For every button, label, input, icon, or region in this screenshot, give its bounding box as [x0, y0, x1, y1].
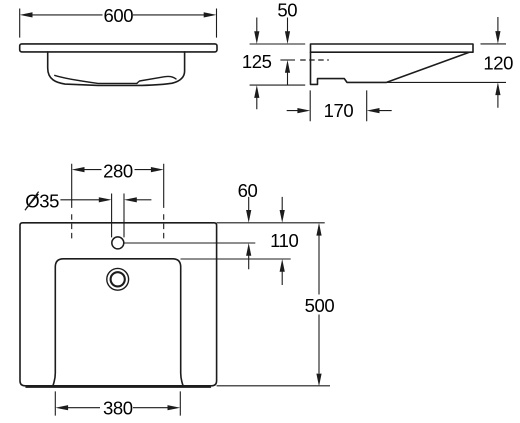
- dim 125 arrow shafts: [256, 18, 258, 110]
- dim 170 arrows: [297, 108, 310, 113]
- svg-text:500: 500: [305, 295, 335, 316]
- dim 500 arrows: [316, 223, 321, 236]
- dim 170 extension lines: [310, 90, 367, 121]
- svg-text:280: 280: [103, 161, 133, 182]
- dim 280 line: [83, 169, 153, 171]
- bowl top edge reference line: [181, 258, 291, 260]
- svg-text:Ø35: Ø35: [25, 191, 59, 212]
- svg-text:110: 110: [270, 230, 298, 251]
- front view bowl inner bottom edge right: [137, 76, 176, 83]
- dim 110 arrows: [280, 210, 285, 223]
- dim 600 arrows: [20, 12, 33, 17]
- dim 50 arrow shafts: [287, 18, 289, 86]
- dim d35 arrows: [99, 197, 112, 202]
- svg-text:120: 120: [483, 53, 513, 74]
- dim 600 extension lines: [20, 9, 217, 38]
- dim 170 arrow shafts: [287, 110, 392, 112]
- dim 110 arrow shafts: [281, 197, 283, 285]
- dim d35 tangent ticks: [112, 194, 124, 238]
- dim 50/125 bottom reference line: [250, 84, 306, 86]
- d35 slash extension: [25, 192, 39, 211]
- plan bottom edge extension line: [217, 385, 330, 387]
- dim d35 leader line: [60, 199, 100, 201]
- dim 50/125 top reference line: [250, 43, 306, 45]
- dim 380 extension lines: [55, 391, 180, 415]
- dim 125 arrows: [254, 31, 259, 44]
- drain outer circle: [107, 268, 129, 290]
- tap hole reference line: [124, 242, 256, 244]
- dim 280 extension lines solid: [72, 164, 164, 208]
- plan outer outline: [20, 223, 217, 386]
- dim 380 arrows: [55, 405, 68, 410]
- dim 60 arrows: [246, 210, 251, 223]
- dim 120 reference lines: [387, 44, 507, 83]
- svg-text:60: 60: [238, 180, 258, 201]
- plan bowl outline: [53, 259, 183, 386]
- tap hole: [112, 237, 124, 249]
- side view hidden line (dashed): [300, 59, 329, 61]
- front view bowl outer shell: [48, 52, 185, 86]
- drain inner circle: [111, 272, 125, 286]
- plan front edge accent line: [26, 386, 211, 388]
- dim 280 extension lines dashed: [72, 214, 164, 241]
- side view body outline: [311, 44, 474, 84]
- dim 50 middle tick: [280, 59, 295, 61]
- dim 60 arrow shafts: [248, 197, 250, 269]
- svg-text:170: 170: [324, 100, 354, 121]
- dim 500 line: [318, 234, 320, 374]
- dim 280 arrows: [72, 167, 85, 172]
- svg-text:125: 125: [242, 51, 272, 72]
- svg-text:380: 380: [103, 398, 133, 419]
- svg-text:50: 50: [277, 0, 297, 21]
- dim d35 right shaft: [136, 199, 152, 201]
- svg-text:600: 600: [103, 5, 133, 26]
- dim 600 line: [31, 14, 205, 16]
- dim 120 arrow shafts: [497, 17, 499, 108]
- dim 50 arrows: [285, 31, 290, 44]
- front view rim slab: [20, 44, 217, 52]
- front view bowl inner bottom edge left: [55, 75, 137, 83]
- plan top edge extension line: [217, 222, 325, 224]
- dim 380 line: [67, 407, 170, 409]
- side view rim slab underside line: [311, 51, 469, 53]
- dim 120 arrows: [495, 31, 500, 44]
